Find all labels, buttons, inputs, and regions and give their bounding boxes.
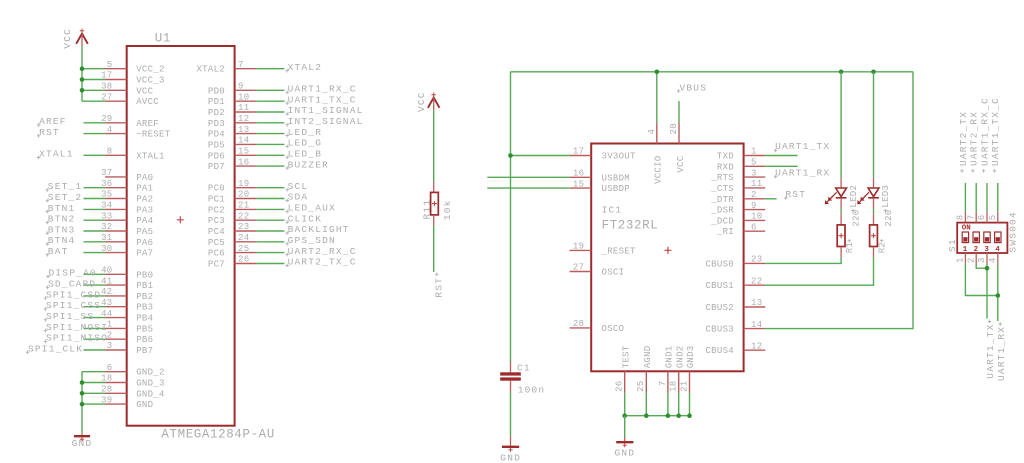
net label LED_G <box>285 138 322 149</box>
U1 pin 3 (PB7) <box>105 341 153 356</box>
junction S1 pin2/3 <box>985 266 990 271</box>
U1 pin 23 (PC4) <box>208 222 256 237</box>
svg-text:PB6: PB6 <box>136 335 153 345</box>
net label UART1_RX_C <box>285 84 356 95</box>
svg-text:19: 19 <box>238 179 249 189</box>
svg-text:220: 220 <box>884 209 894 226</box>
IC1 pin 13 (CBUS2) <box>705 298 765 313</box>
U1 origin cross <box>177 216 184 223</box>
svg-text:PC6: PC6 <box>208 249 225 259</box>
IC1 pin 25 (AGND) bottom <box>636 345 653 392</box>
svg-text:PA4: PA4 <box>136 216 153 226</box>
S1 pin 4 bottom <box>988 253 998 264</box>
svg-text:SDA: SDA <box>288 192 309 203</box>
wire net SET_2 <box>84 198 106 200</box>
net label BACKLIGHT <box>285 224 349 235</box>
ground symbol (C1) <box>502 437 519 452</box>
svg-text:TXD: TXD <box>717 152 734 162</box>
svg-text:FT232RL: FT232RL <box>602 219 659 233</box>
svg-text:UART1_RX: UART1_RX <box>996 326 1007 381</box>
junction GND 2 <box>80 391 85 396</box>
svg-text:SD_CARD: SD_CARD <box>48 279 96 290</box>
svg-text:XTAL2: XTAL2 <box>288 62 323 73</box>
U1 pin 36 (PA1) <box>101 179 153 194</box>
net label BTN2 <box>46 214 76 225</box>
svg-text:LED_B: LED_B <box>288 149 323 160</box>
svg-text:_RESET: _RESET <box>601 246 637 256</box>
junction 3V3OUT <box>508 153 513 158</box>
svg-text:26: 26 <box>238 255 249 265</box>
IC1 origin cross <box>664 247 671 254</box>
svg-text:INT2_SIGNAL: INT2_SIGNAL <box>288 116 364 127</box>
svg-text:SPI1_CLK: SPI1_CLK <box>28 343 83 354</box>
wire net LED_R <box>256 133 284 135</box>
wire VCC vertical <box>81 46 83 101</box>
wire net SPI1_MISO <box>84 338 106 340</box>
junction VCC 2 <box>80 88 85 93</box>
wire rail to LED2 <box>840 72 842 178</box>
svg-text:XTAL1: XTAL1 <box>39 149 74 160</box>
svg-text:11: 11 <box>238 103 249 113</box>
junction gnd bus GND3 <box>687 413 692 418</box>
svg-text:4: 4 <box>988 257 998 263</box>
net label XTAL2 <box>285 62 322 73</box>
svg-text:AREF: AREF <box>39 116 67 127</box>
svg-text:21: 21 <box>238 201 249 211</box>
svg-text:R2: R2 <box>878 242 888 253</box>
U1 pin 24 (PC5) <box>208 233 256 248</box>
svg-text:PC7: PC7 <box>208 260 225 270</box>
svg-text:14: 14 <box>238 136 249 146</box>
power symbol VCC (R11) <box>428 93 440 111</box>
net label VBUS <box>677 82 707 93</box>
svg-text:16: 16 <box>573 169 584 179</box>
wire R2 to CBUS1 <box>765 257 873 285</box>
wire GND vertical (left) <box>81 372 83 434</box>
LED3 name text <box>881 185 891 213</box>
svg-text:~RESET: ~RESET <box>136 130 171 140</box>
svg-text:21: 21 <box>680 380 690 391</box>
IC1 pin 6 (_RI) <box>716 222 765 237</box>
wire net BAT <box>84 252 106 254</box>
IC1 pin 17 (3V3OUT) <box>570 147 636 162</box>
wire net AREF <box>84 122 106 124</box>
wire GND2 down <box>678 393 680 416</box>
svg-text:PD0: PD0 <box>208 86 225 96</box>
net label INT2_SIGNAL <box>285 116 363 127</box>
svg-text:PC4: PC4 <box>208 227 225 237</box>
wire VCC row 1 <box>82 79 105 81</box>
IC1 pin 5 (RXD) <box>717 158 765 173</box>
svg-text:3V3OUT: 3V3OUT <box>602 152 637 162</box>
svg-text:14: 14 <box>751 320 762 330</box>
svg-text:100n: 100n <box>518 384 546 395</box>
svg-text:UART1_RX_C: UART1_RX_C <box>288 84 357 95</box>
wire TXD <box>765 155 797 157</box>
svg-text:RST: RST <box>39 127 60 138</box>
svg-text:LED_R: LED_R <box>288 127 323 138</box>
wire net LED_B <box>256 154 284 156</box>
svg-text:SPI1_CSD: SPI1_CSD <box>46 289 101 300</box>
svg-text:PA7: PA7 <box>136 249 153 259</box>
resistor R11 <box>431 182 439 226</box>
svg-text:15: 15 <box>238 147 249 157</box>
wire net SPI1_CSD <box>84 295 106 297</box>
wire net BTN2 <box>84 219 106 221</box>
ground symbol (IC1) <box>616 437 633 447</box>
svg-text:SET_2: SET_2 <box>48 192 83 203</box>
svg-text:PB4: PB4 <box>136 314 153 324</box>
IC1 pin 16 (USBDM) <box>570 169 630 184</box>
wire net UART1_RX_C <box>256 89 284 91</box>
wire net BTN4 <box>84 241 106 243</box>
svg-text:AGND: AGND <box>643 345 653 368</box>
wire GND row 0 <box>82 371 105 373</box>
svg-text:6: 6 <box>977 215 987 221</box>
junction gnd bus AGND <box>644 413 649 418</box>
svg-text:_DTR: _DTR <box>710 195 734 205</box>
svg-text:4: 4 <box>107 125 113 135</box>
svg-text:UART1_TX_C: UART1_TX_C <box>990 97 1001 166</box>
svg-text:19: 19 <box>573 242 584 252</box>
U1 pin 26 (PC7) <box>208 255 256 270</box>
svg-text:8: 8 <box>956 215 966 221</box>
wire net SPI1_CLK <box>84 349 106 351</box>
svg-text:CBUS3: CBUS3 <box>705 325 734 335</box>
svg-text:5: 5 <box>107 60 113 70</box>
wire net SPI1_MOSI <box>84 327 106 329</box>
wire GND row 1 <box>82 382 105 384</box>
S1 switch element 3 <box>984 232 990 254</box>
svg-text:GND: GND <box>72 438 93 449</box>
net label LED_AUX <box>285 203 336 214</box>
svg-text:17: 17 <box>573 147 584 157</box>
net label UART2_RX_C <box>285 246 356 257</box>
svg-text:USBDM: USBDM <box>602 173 631 183</box>
U1 pin 34 (PA3) <box>101 201 153 216</box>
wire GND1 down <box>667 393 669 416</box>
svg-text:_CTS: _CTS <box>710 184 734 194</box>
wire UART1_TX_C to S1 <box>997 183 999 212</box>
svg-text:PD1: PD1 <box>208 97 225 107</box>
svg-text:RST: RST <box>433 277 444 298</box>
wire net SD_CARD <box>84 284 106 286</box>
U1 pin 20 (PC1) <box>208 190 256 205</box>
net label UART1_TX_C <box>285 94 356 105</box>
svg-text:PD7: PD7 <box>208 162 225 172</box>
U1 pin 2 (PB6) <box>105 330 153 345</box>
wire net INT1_SIGNAL <box>256 111 284 113</box>
svg-text:13: 13 <box>751 298 762 308</box>
svg-text:R1: R1 <box>845 242 855 253</box>
svg-text:_RTS: _RTS <box>710 173 734 183</box>
svg-text:6: 6 <box>107 363 113 373</box>
svg-text:GND2: GND2 <box>676 345 686 368</box>
U1 pin 42 (PB2) <box>101 287 153 302</box>
wire VCC row 0 <box>82 68 105 70</box>
svg-text:XTAL1: XTAL1 <box>136 151 165 161</box>
IC1 pin 3 (_RTS) <box>710 168 765 183</box>
svg-text:5: 5 <box>988 215 998 221</box>
junction LED2 rail <box>839 70 844 75</box>
U1 pin 40 (PB0) <box>101 266 153 281</box>
net label SPI1_MOSI <box>44 322 108 333</box>
net label UART1_TX <box>774 141 831 152</box>
wire net LED_AUX <box>256 208 284 210</box>
IC1 pin 27 (OSCI) <box>570 263 625 278</box>
net label LED_R <box>285 127 322 138</box>
ic IC1 box <box>591 144 743 372</box>
U1 pin 44 (PB4) <box>101 309 153 324</box>
svg-text:PC0: PC0 <box>208 184 225 194</box>
ground symbol (left) <box>74 433 90 441</box>
svg-text:27: 27 <box>573 263 584 273</box>
wire net BTN1 <box>84 208 106 210</box>
svg-text:20: 20 <box>669 123 679 134</box>
svg-text:PD6: PD6 <box>208 151 225 161</box>
svg-text:UART1_RX: UART1_RX <box>775 168 830 179</box>
S1 pin 7 top <box>967 212 977 223</box>
svg-text:1: 1 <box>956 257 966 263</box>
svg-text:VCC: VCC <box>676 155 686 172</box>
svg-text:1: 1 <box>963 246 968 254</box>
svg-text:C1: C1 <box>517 362 531 373</box>
IC1 pin 28 (OSCO) <box>570 319 625 334</box>
wire VBUS to VCC pin <box>678 101 680 123</box>
svg-text:PA0: PA0 <box>136 173 153 183</box>
svg-text:_DSR: _DSR <box>710 206 734 216</box>
svg-text:10: 10 <box>238 92 249 102</box>
IC1 pin 22 (CBUS1) <box>705 276 765 291</box>
wire UART1_RX_C to S1 <box>986 183 988 212</box>
U1 pin 41 (PB1) <box>101 276 153 291</box>
svg-text:BTN2: BTN2 <box>48 214 76 225</box>
wire net SPI1_SS <box>84 317 106 319</box>
wire R1 to CBUS0 <box>765 257 841 263</box>
svg-text:BAT: BAT <box>48 246 69 257</box>
svg-text:15: 15 <box>573 179 584 189</box>
U1 pin 13 (PD4) <box>208 125 256 140</box>
svg-text:CBUS2: CBUS2 <box>705 303 734 313</box>
IC1 pin 12 (CBUS4) <box>705 341 765 356</box>
svg-text:PB1: PB1 <box>136 281 153 291</box>
wire net GPS_SDN <box>256 241 284 243</box>
net label BAT <box>46 246 69 257</box>
svg-text:PB0: PB0 <box>136 270 153 280</box>
svg-text:PA2: PA2 <box>136 195 153 205</box>
svg-text:_DCD: _DCD <box>710 216 734 226</box>
wire net SET_1 <box>84 187 106 189</box>
svg-text:5: 5 <box>751 158 757 168</box>
svg-text:CBUS1: CBUS1 <box>705 281 734 291</box>
wire UART2_TX to S1 <box>964 183 966 212</box>
svg-text:UART2_TX_C: UART2_TX_C <box>288 257 357 268</box>
U1 pin 16 (PD7) <box>208 157 256 172</box>
wire VCCIO drop <box>656 72 658 123</box>
svg-text:1: 1 <box>751 147 757 157</box>
svg-text:UART2_TX: UART2_TX <box>958 111 969 166</box>
svg-text:20: 20 <box>238 190 249 200</box>
svg-text:GPS_SDN: GPS_SDN <box>288 235 336 246</box>
svg-text:6: 6 <box>751 222 757 232</box>
svg-text:GND_2: GND_2 <box>136 368 165 378</box>
net label UART1_TX (vertical) <box>985 320 996 379</box>
net label SET_1 <box>46 181 83 192</box>
wire S1 pin1 down <box>965 264 997 296</box>
wire net LED_G <box>256 143 284 145</box>
U1 pin 37 (PA0) <box>101 168 153 183</box>
svg-text:SCL: SCL <box>288 181 309 192</box>
S1 pin 8 top <box>956 212 966 223</box>
svg-text:PB5: PB5 <box>136 324 153 334</box>
wire USBDP <box>487 187 569 189</box>
U1 pin 8 (XTAL1) <box>105 147 165 162</box>
U1 pin 12 (PD3) <box>208 114 256 129</box>
svg-text:SPI1_MISO: SPI1_MISO <box>46 333 108 344</box>
svg-text:PD2: PD2 <box>208 108 225 118</box>
svg-text:UART2_RX_C: UART2_RX_C <box>288 246 357 257</box>
svg-text:25: 25 <box>238 244 249 254</box>
IC1 pin 19 (_RESET) <box>570 242 636 257</box>
svg-text:BACKLIGHT: BACKLIGHT <box>288 224 350 235</box>
wire net SDA <box>256 198 284 200</box>
junction VCC 0 <box>80 66 85 71</box>
U1 pin 18 (GND_3) <box>101 374 165 389</box>
wire TEST down <box>624 393 626 416</box>
svg-text:PC5: PC5 <box>208 238 225 248</box>
U1 pin 22 (PC3) <box>208 211 256 226</box>
svg-text:PB7: PB7 <box>136 346 153 356</box>
U1 pin 19 (PC0) <box>208 179 256 194</box>
svg-text:AREF: AREF <box>136 119 159 129</box>
svg-text:CBUS0: CBUS0 <box>705 259 734 269</box>
wire S1 pin4 to UART1_RX <box>997 264 999 321</box>
U1 pin 17 (VCC_3) <box>101 71 165 86</box>
wire RXD <box>765 165 797 167</box>
net label SDA <box>285 192 308 203</box>
IC1 pin 18 (GND2) bottom <box>669 345 686 392</box>
svg-text:USBDP: USBDP <box>602 184 631 194</box>
wire AGND down <box>645 393 647 416</box>
wire net DISP_A0 <box>84 273 106 275</box>
svg-text:R11: R11 <box>421 199 432 220</box>
LED LED2 <box>825 178 847 209</box>
net label SPI1_CLK <box>26 343 84 354</box>
svg-text:4: 4 <box>995 246 1000 254</box>
wire GND3 down <box>689 393 691 416</box>
svg-text:PA3: PA3 <box>136 205 153 215</box>
svg-text:220: 220 <box>852 209 862 226</box>
svg-text:AVCC: AVCC <box>136 97 159 107</box>
switch S1 box <box>957 223 1007 253</box>
svg-text:37: 37 <box>101 168 112 178</box>
svg-text:UART2_RX: UART2_RX <box>969 111 980 166</box>
svg-text:SPI1_SS: SPI1_SS <box>46 311 94 322</box>
IC1 pin 20 (VCC) top <box>669 123 686 173</box>
svg-text:BTN3: BTN3 <box>48 224 76 235</box>
svg-text:10: 10 <box>751 212 762 222</box>
svg-text:LED3: LED3 <box>881 185 891 208</box>
LED2 name text <box>849 185 859 213</box>
svg-text:28: 28 <box>573 319 584 329</box>
U1 pin 14 (PD5) <box>208 136 256 151</box>
power symbol VCC (left) <box>76 29 88 47</box>
svg-text:2: 2 <box>974 246 979 254</box>
S1 switch element 4 <box>995 232 1001 254</box>
U1 pin 9 (PD0) <box>208 82 256 97</box>
net label DISP_A0 <box>46 268 97 279</box>
wire net SCL <box>256 187 284 189</box>
svg-text:PA6: PA6 <box>136 238 153 248</box>
wire net RST <box>84 133 106 135</box>
junction LED3 rail <box>871 70 876 75</box>
svg-text:DISP_A0: DISP_A0 <box>49 268 97 279</box>
svg-text:UART1_RX_C: UART1_RX_C <box>980 97 991 166</box>
S1 pin 2 bottom <box>967 253 977 264</box>
U1 pin 38 (VCC) <box>101 82 154 97</box>
svg-text:PD3: PD3 <box>208 119 225 129</box>
svg-text:SPI1_MOSI: SPI1_MOSI <box>46 322 108 333</box>
wire net CLICK <box>256 219 284 221</box>
net label SPI1_CSS <box>44 300 102 311</box>
svg-text:10k: 10k <box>442 199 453 220</box>
wire net SPI1_CSS <box>84 306 106 308</box>
wire R11 to RST <box>433 226 435 272</box>
U1 pin 25 (PC6) <box>208 244 256 259</box>
wire net XTAL1 <box>84 154 106 156</box>
svg-text:_RI: _RI <box>716 227 734 237</box>
net label XTAL1 <box>37 149 74 160</box>
net label UART1_RX_C (vertical) <box>980 97 991 173</box>
svg-text:UART1_TX: UART1_TX <box>775 141 830 152</box>
net label AREF <box>37 116 67 127</box>
net label UART1_RX <box>774 168 831 179</box>
net label SCL <box>285 181 308 192</box>
wire gnd bus to ground <box>624 416 626 437</box>
junction GND 1 <box>80 380 85 385</box>
wire rail to LED3 <box>873 72 875 178</box>
net label RST <box>784 189 806 200</box>
svg-text:VBUS: VBUS <box>680 82 708 93</box>
IC1 pin 9 (_DSR) <box>710 201 765 216</box>
svg-text:INT1_SIGNAL: INT1_SIGNAL <box>288 105 364 116</box>
junction VCC 1 <box>80 77 85 82</box>
U1 pin 28 (GND_4) <box>101 385 165 400</box>
svg-text:BUZZER: BUZZER <box>288 159 329 170</box>
svg-text:GND: GND <box>500 452 521 463</box>
U1 pin 10 (PD1) <box>208 92 256 107</box>
svg-text:9: 9 <box>238 82 244 92</box>
junction GND 3 <box>80 402 85 407</box>
svg-text:PC3: PC3 <box>208 216 225 226</box>
U1 pin 29 (AREF) <box>101 114 159 129</box>
svg-text:23: 23 <box>751 255 762 265</box>
IC1 pin 21 (GND3) bottom <box>680 345 697 392</box>
net label GPS_SDN <box>285 235 336 246</box>
wire USBDM <box>487 176 569 178</box>
svg-text:7: 7 <box>238 60 244 70</box>
net label UART2_TX (vertical) <box>958 111 969 173</box>
R1 name text <box>845 239 855 253</box>
S1 pin 5 top <box>988 212 998 223</box>
svg-text:3: 3 <box>984 246 989 254</box>
wire net INT2_SIGNAL <box>256 122 284 124</box>
IC1 pin 14 (CBUS3) <box>705 320 765 335</box>
wire net BTN3 <box>84 230 106 232</box>
wire 3V3OUT top rail <box>511 71 914 73</box>
LED LED3 <box>857 178 879 209</box>
wire S1 pin2 down <box>976 264 987 268</box>
